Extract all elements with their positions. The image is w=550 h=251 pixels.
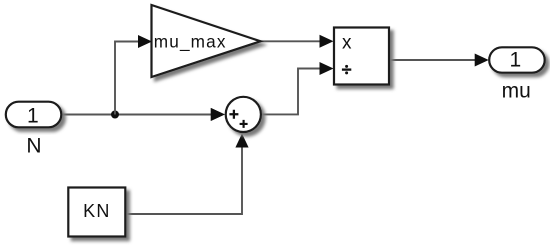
svg-text:1: 1 bbox=[27, 105, 39, 128]
svg-text:x: x bbox=[342, 32, 352, 53]
divide block bbox=[334, 28, 389, 85]
wire: branch up to gain mu_max bbox=[115, 35, 152, 115]
outport 1 (mu) bbox=[489, 47, 545, 72]
wire: sum output to divide in2 bbox=[262, 62, 334, 114]
wire: divide output to outport mu bbox=[389, 54, 489, 67]
svg-text:1: 1 bbox=[509, 49, 521, 72]
svg-text:mu_max: mu_max bbox=[154, 31, 227, 51]
constant KN bbox=[68, 188, 125, 237]
junction node bbox=[111, 111, 119, 119]
svg-text:mu: mu bbox=[502, 79, 531, 102]
svg-text:N: N bbox=[26, 135, 41, 158]
gain mu_max bbox=[152, 5, 261, 77]
inport 1 (N) bbox=[6, 102, 62, 128]
svg-text:KN: KN bbox=[83, 201, 111, 221]
sum S1 bbox=[211, 97, 261, 132]
wire: inport N to sum bbox=[62, 108, 225, 121]
wire: gain output to divide in1 bbox=[261, 35, 334, 48]
wire: constant KN to sum bottom bbox=[126, 134, 249, 215]
